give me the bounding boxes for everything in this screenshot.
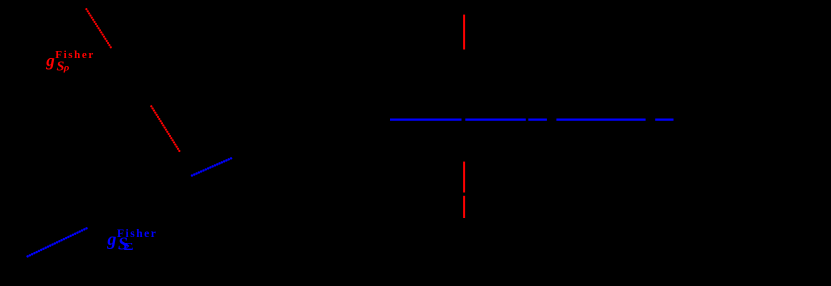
blue horizontal dashed line, segment 3 xyxy=(528,118,547,120)
red geodesic tangent line (dotted), lower segment xyxy=(151,106,179,151)
svg-text:g: g xyxy=(45,51,55,70)
blue horizontal dashed line, segment 1 xyxy=(390,118,462,120)
blue horizontal dashed line, segment 5 xyxy=(655,118,673,120)
label g_{S_Sigma}^{Fisher} (blue) xyxy=(106,228,157,253)
svg-text:Σ: Σ xyxy=(124,242,134,253)
blue horizontal dashed line, segment 4 xyxy=(556,118,645,120)
blue geodesic tangent line (dotted), lower-left segment xyxy=(28,228,87,256)
red vertical dashed line, bottom segment xyxy=(463,196,465,218)
svg-text:ρ: ρ xyxy=(63,63,70,73)
svg-text:g: g xyxy=(106,229,116,249)
blue geodesic tangent line (dotted), upper-right segment xyxy=(192,158,232,176)
red vertical dashed line, top segment xyxy=(463,15,465,50)
red geodesic tangent line (dotted), upper segment xyxy=(86,9,111,47)
red vertical dashed line, middle segment xyxy=(463,162,465,193)
blue horizontal dashed line, segment 2 xyxy=(465,118,526,120)
label g_{S_rho}^{Fisher} (red) xyxy=(45,49,95,75)
